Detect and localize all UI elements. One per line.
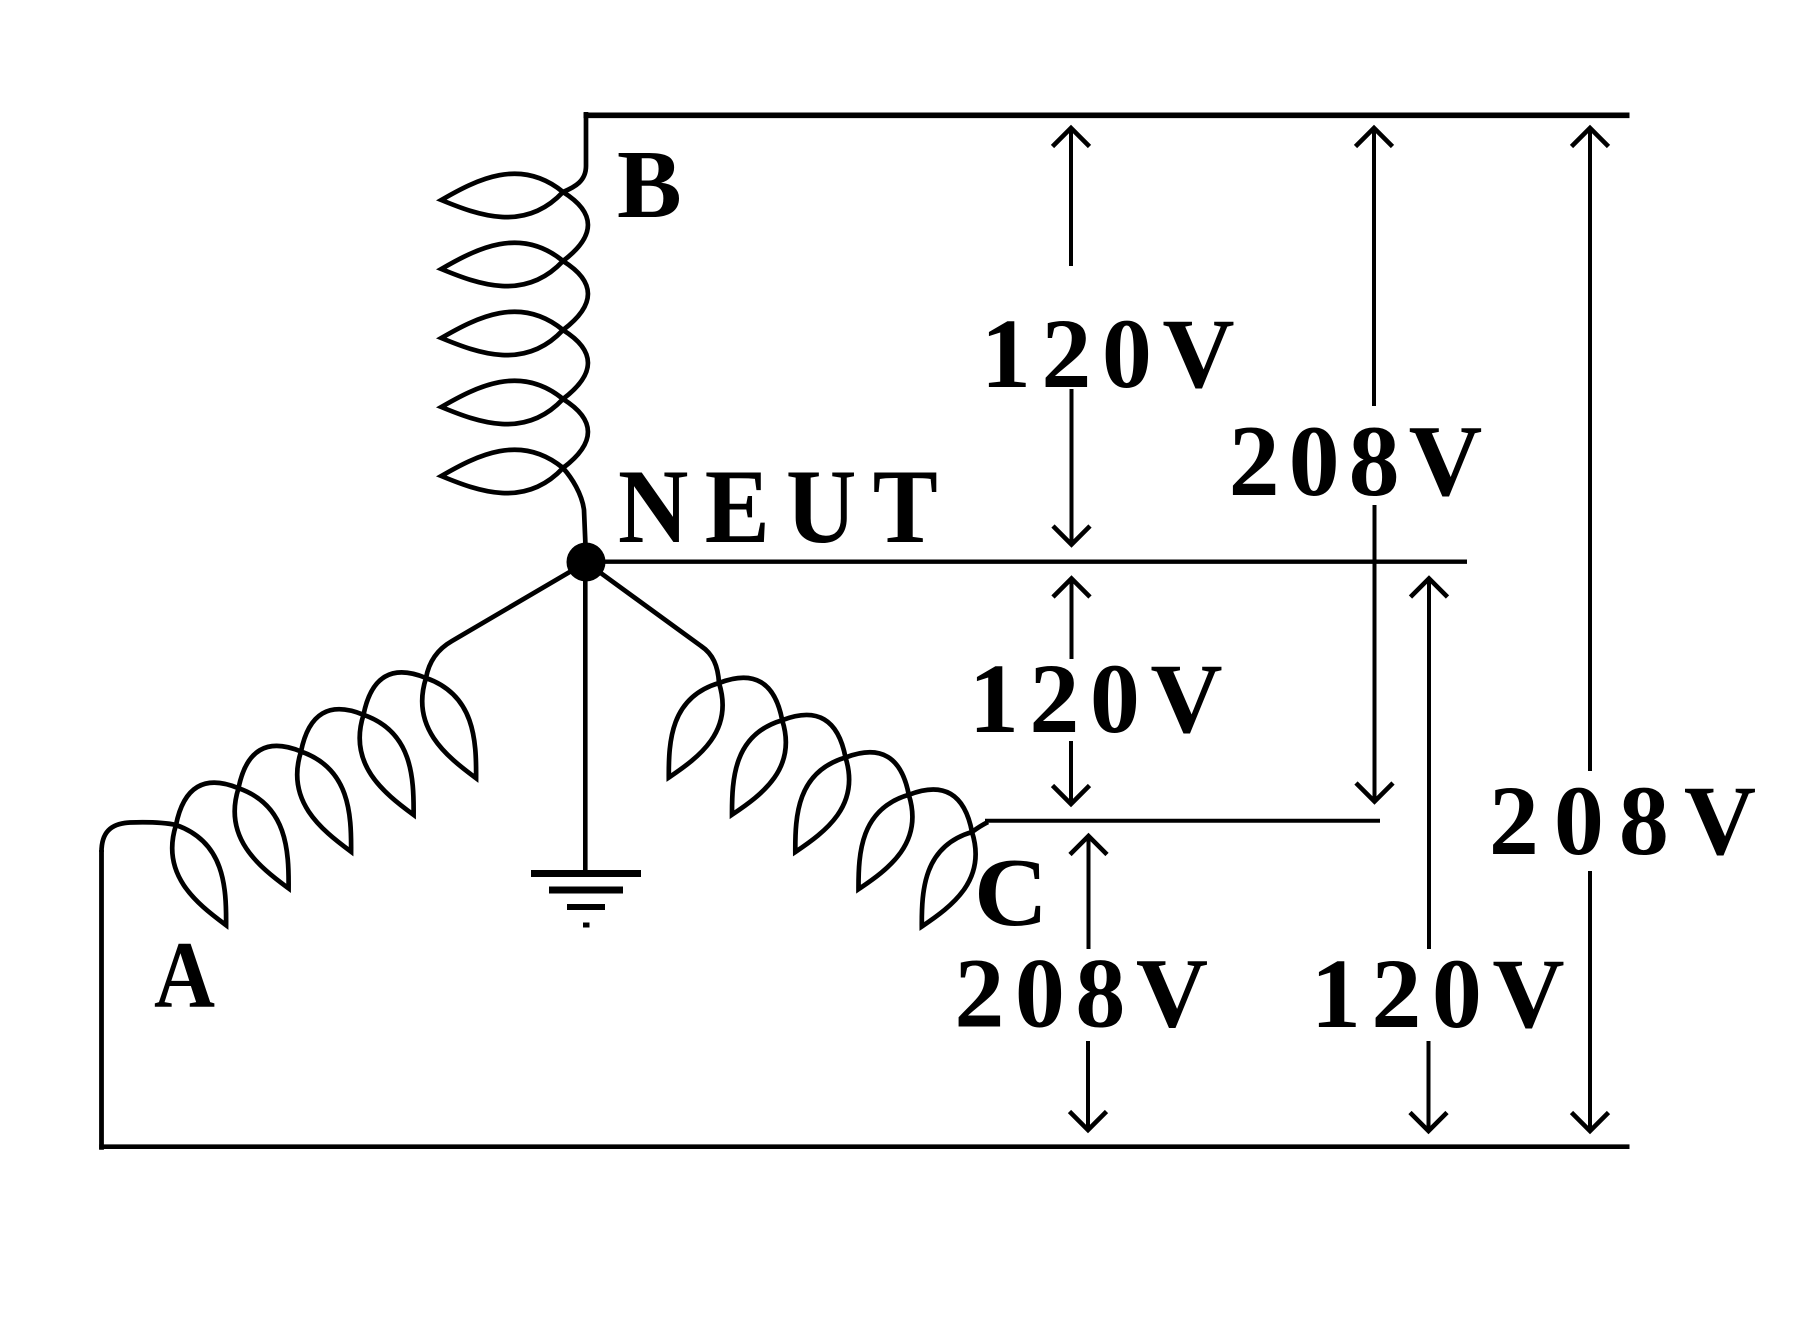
wire: left vertical (phase A drop) xyxy=(99,850,104,1150)
dimension arrow: 120V line B to neutral xyxy=(1053,128,1091,545)
wire: neutral bus from node to right xyxy=(578,560,1467,564)
svg-text:A: A xyxy=(154,922,215,1028)
svg-text:120V: 120V xyxy=(969,643,1233,754)
wire: bottom bus (phase A line) xyxy=(99,1144,1629,1149)
svg-text:B: B xyxy=(617,131,682,238)
wire: ground stem from neutral node xyxy=(583,563,588,873)
dimension arrow: 208V line B to line A xyxy=(1572,128,1609,1131)
svg-text:C: C xyxy=(974,839,1048,946)
svg-text:120V: 120V xyxy=(1311,938,1575,1049)
wire: phase C line to right xyxy=(985,819,1380,823)
svg-text:208V: 208V xyxy=(954,938,1218,1049)
dimension arrow: 208V line B to line C xyxy=(1356,128,1394,802)
coil C (phase C winding) xyxy=(587,563,988,927)
svg-text:NEUT: NEUT xyxy=(618,448,954,566)
coil B (phase B winding) xyxy=(441,112,588,546)
dimension arrow: 120V neutral to line A xyxy=(1410,579,1448,1132)
coil A (phase A winding) xyxy=(102,563,586,925)
svg-text:208V: 208V xyxy=(1229,405,1492,518)
ground symbol xyxy=(531,874,641,926)
svg-text:208V: 208V xyxy=(1489,765,1771,876)
svg-text:120V: 120V xyxy=(981,298,1245,409)
dimension arrow: 120V neutral to line C xyxy=(1053,579,1091,805)
dimension arrow: 208V line C to line A xyxy=(1070,836,1108,1130)
wire: top bus (phase B line) xyxy=(584,113,1630,119)
node: neutral star point (junction dot) xyxy=(567,543,606,582)
